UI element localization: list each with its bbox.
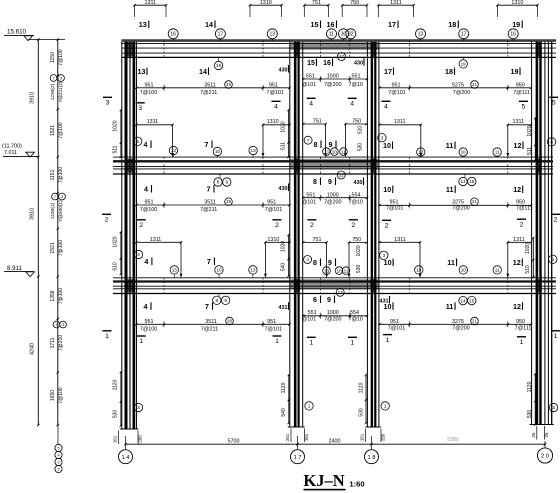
story1 bay14-17 dim row 951 3511 951 <box>135 317 291 332</box>
svg-text:5280: 5280 <box>447 437 459 443</box>
svg-text:12: 12 <box>513 302 521 311</box>
svg-text:510: 510 <box>113 262 119 271</box>
svg-text:7@210: 7@210 <box>58 335 64 351</box>
axis bubble 20 <box>537 448 552 463</box>
svg-text:7@200: 7@200 <box>452 326 469 332</box>
story3 bay14-17 beam labels 13 14 <box>138 58 223 76</box>
svg-text:1311: 1311 <box>513 237 525 243</box>
svg-text:951: 951 <box>392 82 401 88</box>
svg-text:1: 1 <box>308 404 311 409</box>
story2 bay18-20 bottom circles <box>415 266 502 274</box>
story1 column A detail circle 3 <box>134 403 142 411</box>
svg-text:14: 14 <box>460 298 466 303</box>
story1 column B detail circle 1 <box>305 402 313 410</box>
svg-text:1358: 1358 <box>50 290 56 301</box>
svg-text:11: 11 <box>341 149 346 154</box>
left dim 1151 7@100 <box>50 167 64 183</box>
svg-text:3: 3 <box>57 460 59 464</box>
story3 bay14-17 section 4 <box>272 101 281 110</box>
story3 bay18-20 dim row 951 5275 950 <box>378 81 532 96</box>
story1 bay18-20 labels 10 11 12 <box>384 302 523 311</box>
svg-text:10: 10 <box>216 268 222 273</box>
story2 middle bay labels 8 9 <box>313 178 363 187</box>
svg-text:7@101: 7@101 <box>386 205 403 211</box>
svg-text:1311: 1311 <box>394 119 406 125</box>
svg-text:12: 12 <box>339 173 345 178</box>
svg-text:950: 950 <box>516 82 525 88</box>
svg-text:10: 10 <box>461 150 467 155</box>
svg-text:16: 16 <box>170 32 176 38</box>
svg-text:750: 750 <box>352 119 361 125</box>
svg-text:4: 4 <box>144 257 148 266</box>
svg-text:18: 18 <box>445 67 453 76</box>
story1 bay18-20 section 1 left <box>383 335 392 344</box>
story3 column A stirrup dims 1020 511 <box>113 109 123 158</box>
svg-text:10: 10 <box>383 141 391 150</box>
outer section mark 1 <box>551 331 560 340</box>
svg-text:2: 2 <box>351 222 355 229</box>
svg-text:@101: @101 <box>302 317 316 323</box>
svg-text:511: 511 <box>527 147 533 155</box>
svg-text:2: 2 <box>520 221 524 228</box>
story2 bay14-17 top circles 8 9 <box>214 175 231 187</box>
top dimension 1310 <box>249 0 283 17</box>
svg-text:1020: 1020 <box>281 241 287 252</box>
story2 middle bay hook dims 751 750 <box>302 237 368 277</box>
svg-text:554: 554 <box>350 310 359 316</box>
roof beam label 15 <box>311 20 321 29</box>
svg-text:1020: 1020 <box>113 120 119 131</box>
svg-text:430: 430 <box>354 180 363 186</box>
svg-text:251: 251 <box>285 433 290 441</box>
svg-text:1 4: 1 4 <box>121 455 130 461</box>
svg-text:540: 540 <box>281 263 287 272</box>
svg-text:551: 551 <box>352 74 361 80</box>
detail circle 32 above roof <box>346 29 356 41</box>
svg-text:7: 7 <box>52 76 54 80</box>
svg-text:4: 4 <box>552 257 555 262</box>
svg-text:11: 11 <box>447 258 455 267</box>
story2 bay14-17 dim row 951 3511 951 <box>135 198 291 213</box>
svg-text:4: 4 <box>384 104 388 111</box>
story2 bay18-20 labels 10 11 12 <box>383 185 522 194</box>
svg-text:7: 7 <box>205 302 209 311</box>
svg-text:2: 2 <box>385 223 389 230</box>
svg-text:1120: 1120 <box>358 382 364 393</box>
svg-text:15: 15 <box>469 298 475 303</box>
svg-text:151: 151 <box>360 433 365 441</box>
svg-text:KJ–N: KJ–N <box>303 471 344 490</box>
svg-text:10: 10 <box>336 268 342 273</box>
svg-text:17: 17 <box>339 54 345 59</box>
detail circle 16 above roof <box>168 29 178 41</box>
svg-text:17: 17 <box>388 20 396 29</box>
foundation cap lines <box>120 425 554 430</box>
detail circle 16 above roof <box>508 29 518 41</box>
column axis D <box>532 42 552 425</box>
svg-text:1: 1 <box>309 340 313 347</box>
svg-text:551: 551 <box>308 310 317 316</box>
column B foot ticks and text <box>285 429 309 443</box>
svg-text:7@101: 7@101 <box>265 326 282 332</box>
story3 middle bay bottom labels 8 9 <box>304 136 336 149</box>
svg-text:1 7: 1 7 <box>293 455 301 461</box>
svg-text:3511: 3511 <box>204 82 216 88</box>
svg-text:5275: 5275 <box>452 82 464 88</box>
svg-text:12: 12 <box>513 185 521 194</box>
svg-text:1310: 1310 <box>260 0 272 6</box>
story1 bay18-20 left end label 431 <box>380 296 390 305</box>
svg-text:751: 751 <box>313 237 322 243</box>
svg-text:1020: 1020 <box>113 236 119 247</box>
svg-text:3: 3 <box>138 105 142 112</box>
title KJ-N 1:60 <box>303 471 364 490</box>
svg-text:11: 11 <box>495 150 500 155</box>
svg-text:9: 9 <box>328 260 332 267</box>
svg-text:4: 4 <box>57 453 59 457</box>
story1 column C detail circle 1 <box>381 402 389 410</box>
axis bubble 18 <box>365 450 379 464</box>
svg-text:951: 951 <box>267 200 276 206</box>
svg-text:12: 12 <box>513 258 521 267</box>
story2 bay14-17 section 2 right <box>273 220 282 229</box>
svg-text:4: 4 <box>144 140 148 149</box>
svg-text:1000: 1000 <box>327 192 339 198</box>
svg-text:1020: 1020 <box>525 243 531 254</box>
svg-text:14: 14 <box>460 179 466 184</box>
story1 bay18-20 section 1 right <box>517 337 526 346</box>
detail circle 13 above roof <box>267 29 277 41</box>
svg-text:18: 18 <box>448 20 456 29</box>
outer section mark 1 <box>103 331 112 340</box>
svg-text:1 8: 1 8 <box>367 455 375 461</box>
base dimension line 5700 2400 5280 <box>124 437 546 445</box>
svg-text:1000: 1000 <box>327 74 339 80</box>
story3 bay18-20 hook dim 1311 right <box>506 119 532 156</box>
roof beam label 14 <box>205 20 215 29</box>
svg-text:1120: 1120 <box>281 382 287 393</box>
svg-text:5: 5 <box>57 446 59 450</box>
roof beam label 13 <box>139 20 149 29</box>
svg-text:7@100: 7@100 <box>58 240 64 256</box>
svg-text:10: 10 <box>215 149 221 154</box>
svg-text:3: 3 <box>62 323 64 327</box>
svg-text:1020: 1020 <box>527 125 533 136</box>
story2 bay14-17 hook dim 1311 left <box>135 237 182 277</box>
svg-text:12: 12 <box>338 290 344 295</box>
column axis B <box>290 42 303 428</box>
overall height dimension line <box>30 38 40 426</box>
right outer detail circle 3 <box>549 403 557 411</box>
svg-text:7@200: 7@200 <box>324 82 341 88</box>
svg-text:13: 13 <box>172 268 178 273</box>
svg-text:2: 2 <box>105 217 109 224</box>
svg-text:17: 17 <box>384 67 392 76</box>
story1 middle bay labels 6 9 <box>313 296 334 305</box>
svg-text:16: 16 <box>510 32 516 38</box>
svg-text:7@100: 7@100 <box>58 49 64 65</box>
story2 middle bay drop dims <box>356 245 362 273</box>
svg-text:1: 1 <box>554 333 558 340</box>
svg-text:19: 19 <box>511 67 519 76</box>
svg-text:11: 11 <box>344 268 349 273</box>
story1 bay14-17 labels 4 7 <box>144 302 289 311</box>
left dim 1230(1) 7@200(1) <box>50 193 65 222</box>
story1 bay14-17 section 1 left <box>137 336 146 345</box>
svg-text:13: 13 <box>418 32 424 38</box>
svg-text:7@101: 7@101 <box>265 207 282 213</box>
story2 middle bay bottom labels 8 9 <box>304 256 336 268</box>
svg-text:151: 151 <box>304 433 309 441</box>
story3 bay14-17 section 3 <box>136 103 145 112</box>
detail circle 17 above roof <box>459 29 469 41</box>
svg-text:7@211: 7@211 <box>200 90 217 96</box>
story2 bay18-20 dim row 951 3275 950 <box>378 198 532 211</box>
svg-text:7@200: 7@200 <box>324 317 341 323</box>
svg-text:511: 511 <box>281 142 287 150</box>
svg-text:7@211: 7@211 <box>200 207 217 213</box>
svg-text:5: 5 <box>522 104 526 111</box>
story1 middle bay sections 1 1 <box>307 337 357 346</box>
story1 bay18-20 dim row 951 3275 950 <box>378 317 532 332</box>
svg-text:1:60: 1:60 <box>349 480 364 489</box>
beam floor3 <box>113 278 556 294</box>
svg-text:1150: 1150 <box>50 52 56 63</box>
svg-text:951: 951 <box>390 319 399 325</box>
svg-text:7@100: 7@100 <box>140 207 157 213</box>
story3 bay18-20 bottom circles <box>417 148 502 156</box>
svg-text:17: 17 <box>461 32 467 38</box>
svg-text:1: 1 <box>520 339 524 346</box>
svg-text:28: 28 <box>227 319 232 324</box>
svg-text:1: 1 <box>105 333 109 340</box>
story3 column B stirrup dims 1020 511 <box>281 109 290 158</box>
svg-text:9: 9 <box>329 142 333 149</box>
svg-text:7@211(2): 7@211(2) <box>58 81 64 102</box>
svg-text:151: 151 <box>113 435 118 443</box>
svg-text:530: 530 <box>113 410 119 419</box>
svg-text:540: 540 <box>281 408 287 417</box>
svg-text:5: 5 <box>136 139 139 144</box>
story3 bay14-17 dim row 951 3511 951 <box>135 81 291 96</box>
story1 column D base dims 1120 530 <box>527 373 536 426</box>
svg-text:7@101: 7@101 <box>388 326 405 332</box>
svg-text:1521: 1521 <box>50 125 56 136</box>
left dim circles story1 <box>53 321 66 328</box>
svg-text:1: 1 <box>384 404 387 409</box>
svg-text:2: 2 <box>57 467 59 471</box>
svg-text:11: 11 <box>495 268 500 273</box>
svg-text:1650: 1650 <box>50 390 56 401</box>
story2 bay18-20 hook dim 1311 left <box>378 237 421 277</box>
left dim 1230(2) 7@211(2) <box>50 75 64 103</box>
left dim 1358 7@100 <box>50 288 64 304</box>
svg-text:10: 10 <box>384 258 392 267</box>
svg-text:7@200: 7@200 <box>452 205 469 211</box>
svg-text:7: 7 <box>55 323 57 327</box>
stirrup zone dividers <box>164 41 508 294</box>
roof beam label 17 <box>388 20 398 29</box>
story1 column B base dims 1120 540 <box>281 374 290 424</box>
svg-text:7: 7 <box>207 185 211 194</box>
svg-text:9: 9 <box>328 179 332 186</box>
column C foot ticks and text <box>360 429 386 443</box>
story2 bay18-20 section 2 left <box>382 220 391 229</box>
story1 middle bay top circle 12 <box>336 288 344 296</box>
story3 bay18-20 section 5 <box>519 101 528 110</box>
story2 bay14-17 hook dim 1310 right <box>264 237 291 277</box>
svg-text:7@111: 7@111 <box>513 90 530 96</box>
svg-text:1000: 1000 <box>327 310 339 316</box>
svg-text:10: 10 <box>384 302 392 311</box>
svg-text:1310: 1310 <box>267 119 279 125</box>
story3 bay18-20 beam labels 17 18 19 <box>384 58 520 77</box>
svg-text:1151: 1151 <box>50 169 56 180</box>
story3 bay14-17 hook dim 1310 right <box>262 119 291 156</box>
svg-text:4: 4 <box>274 104 278 111</box>
svg-text:1521: 1521 <box>50 242 56 253</box>
svg-text:5700: 5700 <box>228 439 240 445</box>
svg-text:11: 11 <box>446 141 454 150</box>
roof beam label 18 <box>448 20 458 29</box>
svg-text:16: 16 <box>323 60 331 67</box>
svg-text:1120: 1120 <box>527 381 533 392</box>
outer section mark 5 <box>549 97 558 106</box>
middle bay heavy beam segments <box>290 42 379 289</box>
column D foot ticks and text <box>531 426 549 440</box>
svg-text:1230(1): 1230(1) <box>50 202 56 219</box>
svg-text:9: 9 <box>224 298 227 303</box>
svg-text:7: 7 <box>205 140 209 149</box>
svg-text:530: 530 <box>358 408 364 417</box>
svg-text:13: 13 <box>416 268 422 273</box>
svg-text:4: 4 <box>309 101 313 108</box>
svg-text:7@111: 7@111 <box>515 326 532 332</box>
svg-text:13: 13 <box>251 148 257 153</box>
story2 bay18-20 bottom labels <box>380 251 523 267</box>
story1 bay18-20 top circles 14 15 <box>459 296 476 304</box>
svg-text:7@10: 7@10 <box>348 317 362 323</box>
detail circle 11 above roof <box>327 29 337 41</box>
beam floor2 <box>113 157 553 174</box>
svg-text:19: 19 <box>512 20 520 29</box>
svg-text:1: 1 <box>275 338 279 345</box>
svg-text::250: :250 <box>138 435 143 444</box>
svg-text:1: 1 <box>386 337 390 344</box>
svg-text:2: 2 <box>554 217 558 224</box>
story3 middle bay end label 430 <box>354 58 364 66</box>
elevation 8.911 <box>4 265 35 277</box>
svg-text:16: 16 <box>327 20 335 29</box>
left chain bottom leader and circle stack <box>55 425 62 473</box>
svg-text:4: 4 <box>306 257 309 262</box>
right outer detail circle 6 <box>547 138 555 146</box>
svg-text:10: 10 <box>383 185 391 194</box>
svg-text:15.610: 15.610 <box>7 29 26 36</box>
svg-text:7@100: 7@100 <box>58 387 64 403</box>
story2 column A stirrup dims 1020 510 <box>113 231 123 275</box>
svg-text:2 0: 2 0 <box>541 454 549 460</box>
svg-text:1311: 1311 <box>513 119 525 125</box>
svg-text:951: 951 <box>145 82 154 88</box>
svg-text:751: 751 <box>313 119 322 125</box>
svg-text:16: 16 <box>216 63 222 68</box>
svg-text:951: 951 <box>267 319 276 325</box>
svg-text:750: 750 <box>350 0 359 6</box>
story3 bay18-20 section 4 <box>382 101 391 110</box>
svg-text:430: 430 <box>354 61 363 67</box>
svg-text:7@111: 7@111 <box>516 205 533 211</box>
top dimension 1310 <box>496 0 538 17</box>
left dim 1521 7@100 <box>50 122 64 138</box>
story2 middle bay bottom circles <box>323 267 350 275</box>
svg-text:3: 3 <box>137 405 140 410</box>
svg-text:2: 2 <box>310 222 314 229</box>
left dim 1711 7@210 <box>50 335 64 351</box>
svg-text:13: 13 <box>324 149 330 154</box>
svg-text:951: 951 <box>145 319 154 325</box>
svg-text:530: 530 <box>527 410 533 419</box>
top dimension 750 <box>341 0 368 17</box>
svg-text:1: 1 <box>351 340 355 347</box>
left dim 1150 7@100 <box>50 49 64 65</box>
story2 bay14-17 bottom circles <box>170 266 257 278</box>
svg-text:510: 510 <box>525 265 531 274</box>
svg-text:13: 13 <box>270 32 276 38</box>
svg-text:6: 6 <box>313 297 317 304</box>
svg-text:7.011: 7.011 <box>4 150 17 156</box>
svg-text:7@200: 7@200 <box>324 199 341 205</box>
svg-text:7: 7 <box>307 138 310 143</box>
story3 column D stirrup dims 1020 511 <box>527 117 537 161</box>
svg-text:26: 26 <box>531 432 536 437</box>
right outer detail circle 4 <box>549 255 557 263</box>
svg-text:28: 28 <box>226 82 231 87</box>
column axis C <box>367 42 379 428</box>
elevation 15.610 <box>4 29 65 41</box>
story2 bay18-20 section 2 right <box>517 219 526 228</box>
story3 bay14-17 hook dim 1311 left <box>135 119 174 156</box>
svg-text:13: 13 <box>418 150 424 155</box>
svg-text:15: 15 <box>307 60 315 67</box>
svg-text:554: 554 <box>352 192 361 198</box>
svg-text:13: 13 <box>250 268 256 273</box>
storey subdivision dimension line <box>57 38 59 426</box>
column A foot ticks and text <box>113 431 143 445</box>
svg-text:430: 430 <box>279 68 288 74</box>
svg-text:1230(2): 1230(2) <box>50 83 56 100</box>
svg-text:3910: 3910 <box>30 208 36 220</box>
svg-text:1311: 1311 <box>147 119 159 125</box>
svg-text:951: 951 <box>145 200 154 206</box>
svg-text:4: 4 <box>137 252 140 257</box>
axis bubble 17 <box>291 450 305 464</box>
story2 middle bay top circle 12 <box>337 171 345 179</box>
top dimension 1311 <box>133 0 167 17</box>
svg-text:13: 13 <box>324 268 330 273</box>
svg-text:15: 15 <box>311 20 319 29</box>
story3 bay18-20 hook dim 1311 left <box>378 119 422 156</box>
svg-text:1020: 1020 <box>281 121 287 132</box>
svg-text:10: 10 <box>461 268 467 273</box>
svg-text:7@100: 7@100 <box>58 167 64 183</box>
svg-text:510: 510 <box>358 126 364 135</box>
svg-text:4: 4 <box>144 302 148 311</box>
svg-text:1310: 1310 <box>511 0 523 6</box>
story1 middle bay dim row 551 1000 554 <box>302 310 368 322</box>
svg-text:25: 25 <box>544 432 549 437</box>
svg-text:3: 3 <box>381 135 384 140</box>
